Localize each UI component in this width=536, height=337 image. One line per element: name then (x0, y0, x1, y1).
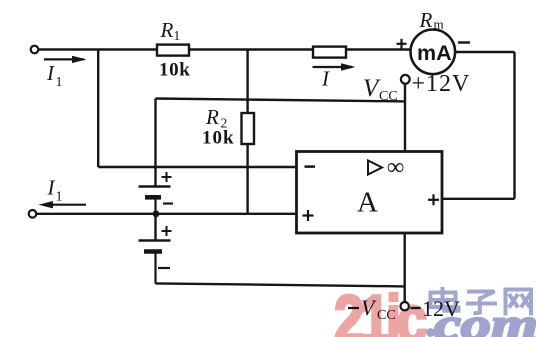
wire inverting input (98, 166, 296, 168)
terminal +12V (401, 75, 410, 84)
wire between junction and battery B2 (154, 214, 156, 240)
svg-text:+12V: +12V (412, 71, 471, 97)
current arrow I1 (bottom, pointing left) (39, 201, 87, 208)
sampling resistor box (unlabeled) (313, 47, 346, 58)
svg-text:A: A (357, 187, 378, 219)
current arrow I1 (top, pointing right) (44, 56, 87, 63)
watermark 网 (506, 290, 532, 316)
watermark com script (434, 300, 536, 337)
plus sign (B2) (162, 226, 172, 236)
input terminal 2 (29, 210, 37, 218)
terminal -12V (401, 302, 409, 310)
svg-text:1: 1 (174, 28, 181, 43)
plus sign (op-amp output) (428, 194, 439, 205)
label Rm (419, 8, 444, 32)
svg-text:R: R (160, 18, 174, 42)
wire R2 drop from top rail (246, 50, 248, 214)
svg-text:10k: 10k (202, 128, 235, 149)
label I1 (top) (46, 61, 63, 90)
svg-text:1: 1 (56, 190, 63, 205)
label R2 (205, 105, 227, 131)
svg-text:m: m (434, 17, 444, 32)
plus sign (op-amp noninverting) (303, 210, 314, 221)
wire op-amp Vee vertical (404, 233, 406, 302)
wire noninverting input (37, 213, 297, 215)
battery B2 (139, 241, 171, 284)
svg-text:10k: 10k (159, 60, 190, 81)
wire battery stack top (154, 99, 156, 187)
svg-text:I: I (46, 61, 55, 85)
svg-text:I: I (321, 67, 330, 91)
minus sign (meter right) (458, 41, 470, 43)
label -Vcc (348, 295, 396, 323)
resistor R1 (157, 45, 189, 56)
label Vcc (363, 75, 398, 104)
wire Vcc horizontal (156, 99, 405, 102)
label R1 (160, 18, 181, 43)
current arrow I (pointing right) (313, 63, 356, 70)
wire Vcc vertical to op-amp (404, 84, 406, 152)
svg-text:R: R (419, 8, 433, 32)
wire vertical from top rail to inverting input (97, 50, 99, 168)
svg-text:1: 1 (56, 75, 63, 90)
svg-text:I: I (47, 176, 56, 200)
wire bottom rail (156, 283, 405, 286)
svg-text:CC: CC (377, 308, 396, 323)
watermark 子 (466, 292, 497, 314)
plus sign (meter left) (397, 39, 407, 49)
plus sign (B1) (162, 172, 172, 182)
resistor R2 (242, 113, 255, 144)
svg-text:R: R (205, 105, 219, 129)
op-amp gain symbol triangle-infinity (368, 155, 404, 181)
svg-text:12V: 12V (422, 296, 460, 321)
minus sign (B2) (158, 267, 170, 269)
junction dot (153, 210, 160, 217)
minus sign (op-amp inverting) (305, 165, 316, 168)
wire op-amp output (442, 198, 515, 200)
svg-text:∞: ∞ (387, 155, 404, 181)
wire meter to right rail (455, 51, 515, 53)
battery B1 (139, 187, 171, 214)
wire right rail vertical (513, 52, 515, 199)
watermark com dot (426, 328, 435, 337)
label -12V (411, 296, 461, 321)
input terminal 1 (31, 46, 39, 54)
wire top rail (39, 48, 412, 50)
svg-text:mA: mA (417, 41, 452, 65)
watermark 电 (431, 287, 459, 311)
milliammeter mA (411, 30, 456, 75)
watermark 21ic (334, 282, 426, 337)
label I1 (bottom) (47, 176, 63, 205)
op-amp A box (297, 152, 443, 234)
minus sign (B1) (163, 202, 173, 204)
